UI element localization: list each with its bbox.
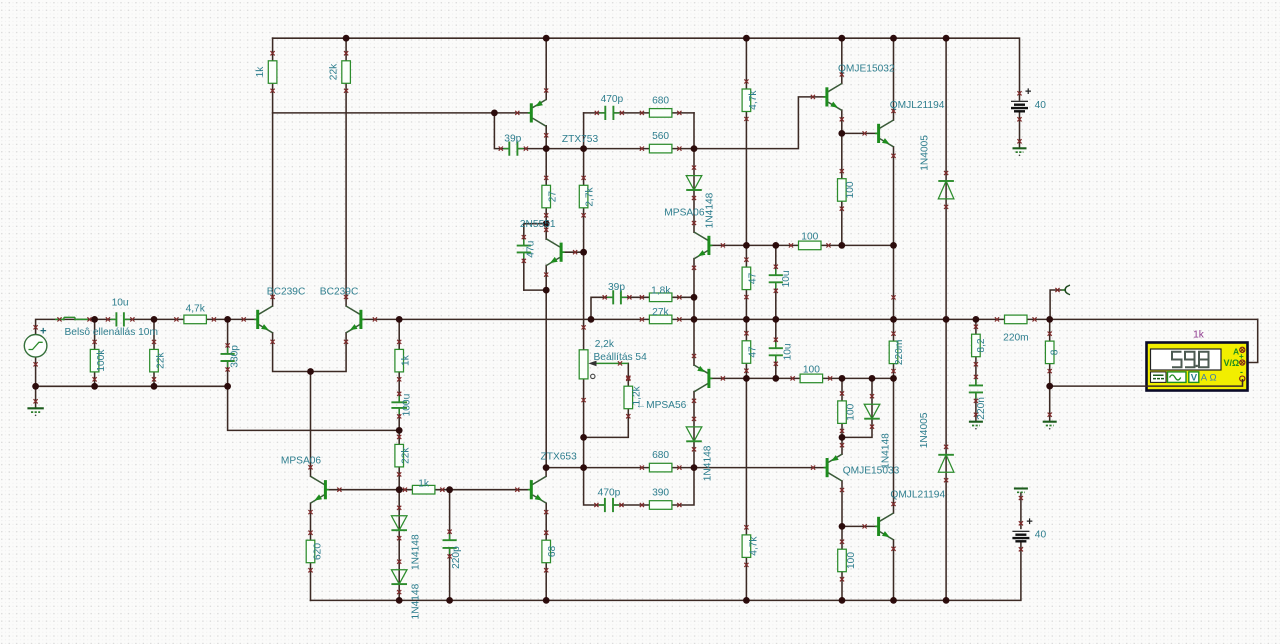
node rail 1N4005 (943, 597, 950, 604)
wire QMJE15032 emitter chain (841, 110, 843, 245)
wire input ground rail (36, 385, 228, 387)
transistor QMJE15033 (811, 443, 844, 492)
resistor R22k input (150, 340, 159, 382)
wire QMJE15032 collector (841, 38, 843, 83)
capacitor C100u (391, 392, 407, 419)
svg-text:1,8k: 1,8k (651, 285, 671, 296)
node 378 diode (869, 375, 876, 382)
wire C10u-2 top (775, 319, 777, 347)
node main x746 (743, 316, 750, 323)
wire x842 mid chain (841, 378, 843, 454)
resistor R100 bottom (838, 540, 847, 582)
svg-text:+: + (1025, 86, 1031, 98)
svg-text:1k: 1k (255, 66, 266, 78)
resistor R100 row245 (789, 241, 831, 250)
svg-text:←MPSA56: ←MPSA56 (636, 400, 687, 411)
capacitor C330p (221, 343, 235, 371)
wire +rail (273, 38, 1020, 100)
resistor R22k mid (395, 435, 404, 477)
node 560 left (543, 145, 550, 152)
resistor R1k diff (395, 340, 404, 382)
svg-text:+: + (40, 326, 46, 338)
node 245 out (890, 242, 897, 249)
node top QMJE15032 (838, 35, 845, 42)
resistor R560 (640, 144, 682, 153)
wire 680 row right (615, 112, 695, 114)
wire row470p right (615, 468, 694, 505)
wire Q2 collector up (345, 38, 347, 306)
battery +40 (1011, 86, 1031, 121)
wire MPSA56 base row 378 (711, 377, 894, 379)
svg-text:A: A (1201, 373, 1208, 384)
ground zobel (969, 413, 983, 430)
node main C10u (772, 316, 779, 323)
wire 47u bottom link (524, 289, 546, 291)
diode 1N4005 lower (938, 445, 954, 483)
node main R8,2 (973, 316, 980, 323)
wire 2N5551 emitter (545, 265, 547, 290)
ground battery top (1013, 139, 1027, 156)
diode D1 1N4148 (391, 506, 407, 541)
node 560 2,7k (580, 145, 587, 152)
wire source bottom to ground rail (35, 357, 37, 408)
wire C220p bottom (449, 549, 451, 601)
node diff tail (307, 368, 314, 375)
node QMJL base tap (838, 130, 845, 137)
svg-text:1N4005: 1N4005 (919, 135, 930, 171)
wire MPSA06t emitter down (693, 259, 695, 298)
node main output (890, 316, 897, 323)
svg-text:22k: 22k (401, 447, 412, 464)
resistor R47 lower (742, 331, 751, 373)
transistor MPSA06 current source (308, 465, 341, 514)
node main R8 (1046, 316, 1053, 323)
node top QMJL21194 (890, 35, 897, 42)
wire C220p top (449, 490, 451, 540)
node R8 bottom (1046, 383, 1053, 390)
svg-text:ZTX653: ZTX653 (541, 451, 578, 462)
node rail 220p (446, 597, 453, 604)
svg-text:MPSA06: MPSA06 (664, 208, 705, 219)
transistor MPSA56 (692, 354, 725, 403)
svg-text:620: 620 (312, 543, 323, 560)
wire 220n bottom (975, 393, 977, 420)
resistor R1,2k (624, 377, 633, 419)
node row467 ztx (543, 464, 550, 471)
svg-text:Ω: Ω (1210, 373, 1217, 384)
node main R100k (91, 316, 98, 323)
svg-text:22k: 22k (329, 63, 340, 80)
ground battery bottom (1014, 489, 1028, 501)
resistor R680 bottom (640, 463, 682, 472)
svg-text:QMJL21194: QMJL21194 (890, 100, 945, 111)
wire 680 row left (584, 112, 604, 114)
wire 2N5551 base (564, 251, 584, 253)
node 1,8k right (691, 294, 698, 301)
node 39p tap (491, 110, 498, 117)
wire Q1C to ZTX753 base (273, 112, 530, 114)
wire ZTX753 collector down (545, 126, 547, 149)
node qmjl-b base (839, 523, 846, 530)
source VG1 (24, 325, 47, 366)
node 245 x746 (743, 242, 750, 249)
node 47u top (543, 220, 550, 227)
node top x746 (743, 35, 750, 42)
resistor R100 emitter top (838, 169, 847, 211)
svg-text:1k: 1k (1193, 329, 1205, 340)
transistor ZTX753 (515, 88, 548, 137)
transistor Q2 BC239C (344, 295, 377, 344)
wire C10u-2 bottom (775, 356, 777, 378)
wire 1.8k row (622, 296, 694, 298)
node main R22k (151, 316, 158, 323)
node main 1N4005 (943, 316, 950, 323)
resistor R4,7k lower (742, 525, 751, 567)
pin mark output rail segment (891, 295, 895, 299)
capacitor C470p bottom (594, 498, 623, 512)
resistor R220m vertical (889, 332, 898, 374)
wire R1,2k bottom (584, 409, 629, 438)
wire Q1 collector up (272, 38, 274, 306)
wire QMJL21194b base (842, 525, 877, 527)
internal resistance symbol (55, 317, 92, 321)
capacitor C10u upper (769, 265, 783, 293)
wire ZTX653 emitter down (545, 503, 547, 600)
svg-text:680: 680 (652, 450, 669, 461)
resistor R620 (306, 531, 315, 573)
svg-text:V: V (1191, 373, 1198, 384)
diode D2 1N4148 (391, 560, 407, 595)
svg-text:2,7k: 2,7k (585, 186, 596, 206)
node gnd C330p (224, 383, 231, 390)
svg-text:1N4148: 1N4148 (705, 192, 716, 228)
wire 47u top link (524, 223, 546, 225)
svg-text:47u: 47u (525, 241, 536, 258)
svg-text:68: 68 (547, 546, 558, 558)
node 378 10u (772, 375, 779, 382)
potentiometer P2,2k (579, 325, 630, 402)
node top 1N4005 (943, 35, 950, 42)
wire R1k-C100u top (398, 319, 400, 401)
wire diff emitters (273, 333, 347, 372)
node gnd R100k (91, 383, 98, 390)
svg-text:27k: 27k (652, 307, 669, 318)
node main 39p bend (588, 316, 595, 323)
diode 1N4005 upper (938, 171, 954, 209)
capacitor C10u lower (769, 338, 783, 366)
capacitor C10u input (106, 312, 135, 326)
svg-text:39p: 39p (608, 282, 625, 293)
resistor R27k (640, 315, 682, 324)
node 245 10u (772, 242, 779, 249)
output connector (1055, 285, 1070, 295)
capacitor C220p (443, 530, 457, 559)
svg-text:4,7k: 4,7k (748, 90, 759, 110)
wire QMJL21194 collector (893, 38, 895, 120)
svg-text:+: + (1026, 516, 1032, 528)
multimeter VM1 (1147, 343, 1248, 391)
capacitor C47u (517, 235, 531, 263)
svg-text:220m: 220m (894, 340, 905, 365)
wire C10u-1 top (775, 245, 777, 274)
svg-text:22k: 22k (156, 351, 167, 368)
wire output vertical (893, 147, 895, 513)
wire MPSA06 emitter down (310, 503, 312, 600)
svg-text:40: 40 (1035, 100, 1047, 111)
svg-text:220n: 220n (976, 397, 987, 420)
wire battery top lower (1019, 112, 1021, 148)
resistor R1,8k (640, 293, 682, 302)
wire C100u down chain (398, 409, 400, 601)
svg-text:220p: 220p (451, 546, 462, 569)
resistor R22k top (342, 51, 351, 93)
node pot bottom (580, 434, 587, 441)
resistor R680 top (640, 109, 682, 118)
wire R22k branch (153, 319, 155, 386)
node 378 100r (839, 375, 846, 382)
wire tail down (310, 372, 312, 477)
wire row 680b (546, 467, 826, 469)
svg-text:330p: 330p (230, 345, 241, 368)
resistor R1k top-left (268, 51, 277, 93)
wire MPSA06t base row 245 (710, 244, 894, 246)
wire C330p top (227, 319, 229, 352)
resistor R4,7k input (174, 315, 216, 324)
svg-text:8: 8 (1050, 349, 1061, 355)
wire R100k branch (94, 319, 96, 386)
resistor R2,7k (579, 176, 588, 218)
resistor R100k (90, 340, 99, 382)
wire R8 branch (1049, 319, 1051, 420)
wire 47u lower (523, 253, 525, 290)
svg-text:560: 560 (652, 131, 669, 142)
wire C10u-1 bottom (775, 283, 777, 319)
node 378 out (890, 375, 897, 382)
svg-text:MPSA06: MPSA06 (281, 455, 322, 466)
svg-text:100: 100 (845, 181, 856, 198)
node 245 100r (838, 242, 845, 249)
node qmje33 emitter (839, 434, 846, 441)
svg-text:1N4005: 1N4005 (919, 412, 930, 448)
capacitor C220n (969, 375, 983, 403)
resistor R27 (542, 176, 551, 218)
wire cap10u to Q1 base (126, 318, 257, 320)
svg-text:1N4148: 1N4148 (410, 534, 421, 570)
wire C330p bottom (227, 362, 229, 386)
node rail d2 (396, 597, 403, 604)
diode 1N4148 lower x694 (686, 417, 702, 452)
capacitor C470p top (595, 106, 624, 120)
node rail 100r (839, 597, 846, 604)
wire QMJL21194b emitter (893, 540, 895, 601)
node 47u bottom (543, 287, 550, 294)
svg-text:10u: 10u (781, 270, 792, 287)
resistor R1k bias (403, 485, 445, 494)
node gnd source (32, 383, 39, 390)
resistor R100 mid (838, 391, 847, 433)
transistor QMJL21194 top (863, 109, 896, 158)
wire output connector (1050, 290, 1064, 319)
wire pot wiper to R1,2k (627, 363, 629, 386)
diode 1N4148 x872 (864, 394, 880, 429)
wire main signal line (399, 318, 1257, 320)
wire x946 diode chain (945, 38, 947, 600)
svg-text:4,7k: 4,7k (749, 536, 760, 556)
wire 27 chain (545, 149, 547, 240)
transistor ZTX653 (515, 465, 548, 514)
svg-text:100: 100 (803, 365, 820, 376)
svg-text:ZTX753: ZTX753 (562, 134, 599, 145)
wire -rail (311, 542, 1021, 601)
wire pot bottom chain (583, 379, 585, 468)
node main Q2 base (396, 316, 403, 323)
wire x694 main to 1.8k row (693, 297, 695, 319)
resistor R220m output (995, 315, 1037, 324)
svg-text:39p: 39p (504, 134, 521, 145)
resistor R4,7k upper (742, 79, 751, 121)
wire source to cap10u (36, 319, 115, 334)
node row467 diode (691, 464, 698, 471)
node bias right (446, 486, 453, 493)
svg-text:10u: 10u (112, 298, 129, 309)
resistor R47 upper (742, 258, 751, 300)
svg-text:BC239C: BC239C (320, 286, 359, 297)
node 560 right (691, 145, 698, 152)
wire 39p2 bend (591, 297, 612, 319)
svg-text:Belsô ellenállás 10m: Belsô ellenállás 10m (65, 327, 158, 338)
svg-text:390: 390 (652, 488, 669, 499)
node main C330p (224, 316, 231, 323)
node top R22k (343, 35, 350, 42)
wire MPSA06t collector diode (693, 149, 695, 233)
svg-text:47: 47 (748, 272, 759, 284)
wire battery bottom upper (1020, 493, 1022, 528)
svg-text:100: 100 (846, 552, 857, 569)
wire x746 chain (745, 38, 747, 600)
node top ZTX753 (543, 35, 550, 42)
node fb 430 (396, 427, 403, 434)
svg-text:1N4148: 1N4148 (703, 445, 714, 481)
node rail x746 (743, 597, 750, 604)
resistor R8,2 (972, 325, 981, 367)
node gnd R22k (151, 383, 158, 390)
wire ZTX753 emitter up (545, 38, 547, 99)
svg-text:QMJE15032: QMJE15032 (838, 64, 895, 75)
svg-text:470p: 470p (601, 94, 624, 105)
svg-text:8,2: 8,2 (976, 338, 987, 352)
svg-text:1k: 1k (418, 478, 430, 489)
svg-text:2N5551: 2N5551 (520, 219, 556, 230)
svg-text:100k: 100k (96, 349, 107, 372)
wire 39p1 tap (494, 113, 508, 149)
diode 1N4148 upper x694 (686, 166, 702, 201)
svg-text:1N4148: 1N4148 (410, 583, 421, 619)
svg-text:BC239C: BC239C (267, 286, 306, 297)
transistor 2N5551 (544, 228, 577, 277)
svg-text:220m: 220m (1003, 332, 1028, 343)
node row467 pot (580, 464, 587, 471)
wire 2,7k chain (583, 149, 585, 253)
wire MPSA56 emitter up (693, 319, 695, 365)
svg-text:100: 100 (801, 231, 818, 242)
svg-text:1k: 1k (401, 354, 412, 366)
wire Q2 base to node (362, 318, 399, 320)
wire row470p left (584, 468, 604, 505)
ground load (1043, 413, 1057, 430)
wire diode x872 branch (842, 378, 872, 437)
svg-text:Beállítás 54: Beállítás 54 (594, 352, 648, 363)
resistor R68 (542, 531, 551, 573)
transistor MPSA06 vas (692, 221, 725, 270)
svg-text:27: 27 (548, 191, 559, 203)
svg-text:4,7k: 4,7k (186, 303, 206, 314)
resistor R390 (640, 501, 682, 510)
wire QMJE15033 collector chain (841, 481, 843, 600)
svg-text:680: 680 (652, 95, 669, 106)
resistor R8 load (1045, 332, 1054, 374)
battery -40 (1012, 516, 1032, 551)
wire x694 diode section (693, 392, 695, 468)
wire 470p1 bend (583, 113, 585, 149)
wire pot top chain (583, 252, 585, 350)
svg-text:47: 47 (747, 346, 758, 358)
wire meter V ohm (1245, 319, 1258, 362)
capacitor C39p vas (499, 142, 528, 156)
wire meter minus (1050, 380, 1243, 386)
svg-text:QMJL21194: QMJL21194 (890, 490, 945, 501)
capacitor C39p mid (603, 290, 632, 304)
wire QMJL21194 base (843, 132, 876, 134)
svg-text:QMJE15033: QMJE15033 (843, 466, 900, 477)
node 378 x746 (743, 375, 750, 382)
wire row148 to QMJE15032 base (694, 97, 824, 149)
svg-text:100: 100 (845, 403, 856, 420)
svg-text:10u: 10u (782, 343, 793, 360)
svg-text:470p: 470p (598, 487, 621, 498)
node rail R68 (543, 597, 550, 604)
resistor R100 row378 (791, 374, 833, 383)
wire mid chain vertical (545, 290, 547, 468)
wire MPSA06 base row (327, 489, 399, 491)
node bias left (396, 486, 403, 493)
svg-text:40: 40 (1035, 529, 1047, 540)
wire 560 row (519, 148, 694, 150)
transistor Q1 BC239C (242, 295, 275, 344)
wire R8,2 top (975, 319, 977, 384)
wire feedback down (228, 386, 400, 430)
node rail qmjl-b (890, 597, 897, 604)
transistor QMJE15032 (811, 72, 844, 121)
node main x694 (691, 316, 698, 323)
node 2N5551 base (580, 249, 587, 256)
ground input (27, 399, 43, 416)
svg-text:V/Ω: V/Ω (1224, 358, 1240, 368)
wire x694 top (693, 113, 695, 149)
wire ZTX653 collector up (545, 468, 547, 477)
transistor QMJL21194 bottom (863, 502, 896, 551)
svg-text:1N4148: 1N4148 (881, 433, 892, 469)
svg-text:100u: 100u (401, 394, 412, 417)
wire 47u upper (523, 224, 525, 245)
wire R1k row to ZTX653 base (399, 489, 530, 491)
svg-text:2,2k: 2,2k (595, 339, 615, 350)
